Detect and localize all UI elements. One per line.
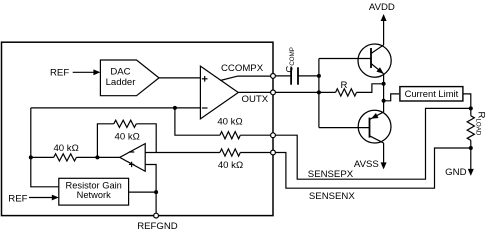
- svg-text:AVSS: AVSS: [354, 159, 379, 170]
- svg-text:SENSEPX: SENSEPX: [308, 169, 354, 180]
- svg-text:AVDD: AVDD: [369, 2, 395, 13]
- DAC Ladder block: [100, 60, 159, 96]
- terminal SENSEPX: [271, 133, 276, 138]
- wire OUTX line: [275, 91, 335, 93]
- svg-text:40 kΩ: 40 kΩ: [217, 117, 242, 128]
- svg-text:40 kΩ: 40 kΩ: [218, 160, 243, 171]
- Current Limit block: [400, 87, 463, 101]
- node current limit junction: [382, 99, 386, 103]
- wire U2 inverting input to terminal: [145, 152, 220, 154]
- power AVDD: [369, 2, 395, 45]
- terminal OUTX: [271, 90, 276, 95]
- svg-text:R: R: [341, 80, 348, 91]
- wire base of Q1: [319, 58, 371, 60]
- resistor 40 kOhm (to SENSENX terminal): [218, 149, 271, 171]
- wire DAC ladder to op-amp U1 noninverting input: [159, 77, 200, 79]
- wire Resistor Gain Network to REFGND net: [129, 191, 157, 193]
- svg-text:CCOMPX: CCOMPX: [221, 63, 264, 74]
- wire base of Q2: [319, 127, 370, 129]
- terminal REFGND: [154, 213, 159, 218]
- svg-text:OUTX: OUTX: [242, 94, 269, 105]
- node feedback branch junction: [173, 106, 177, 110]
- wire Current Limit to RLOAD top: [463, 94, 471, 109]
- transistor Q2 (PNP bottom): [358, 110, 391, 143]
- svg-text:GND: GND: [445, 167, 466, 178]
- wire U1 output to OUTX terminal: [238, 91, 270, 93]
- op-amp U2 (pointing left): [120, 144, 145, 172]
- wire SENSEPX net: [275, 108, 470, 179]
- wire base bus vertical: [318, 59, 320, 128]
- wire U1 inverting input feedback line: [31, 107, 201, 109]
- wire Q1 emitter to Q2 emitter: [383, 74, 385, 112]
- resistor R (series): [336, 80, 357, 96]
- node op-amp U2 output junction: [95, 155, 99, 159]
- node OUTX junction: [317, 90, 321, 94]
- svg-text:REF: REF: [8, 193, 27, 204]
- node left resistor junction: [29, 155, 33, 159]
- node CCOMP junction: [317, 74, 321, 78]
- svg-text:40 kΩ: 40 kΩ: [115, 131, 140, 142]
- transistor Q1 (NPN top): [358, 44, 391, 77]
- svg-text:CCOMP: CCOMP: [284, 47, 296, 73]
- wire U2 noninverting input to REFGND: [145, 165, 156, 214]
- svg-text:Ladder: Ladder: [106, 77, 137, 88]
- resistor 40 kOhm (left): [31, 143, 98, 161]
- svg-text:SENSENX: SENSENX: [309, 191, 355, 202]
- resistor 40 kOhm (feedback of U2): [97, 120, 156, 157]
- op-amp U1: [200, 66, 238, 119]
- svg-text:Current Limit: Current Limit: [405, 88, 459, 99]
- wire R to emitter node (jog): [357, 84, 384, 93]
- wire REF to DAC ladder (arrow): [73, 69, 101, 75]
- wire feedback branch down to 40k: [175, 108, 220, 135]
- wire to Current Limit (jog): [384, 94, 400, 101]
- wire U2 output: [97, 156, 119, 158]
- svg-text:DAC: DAC: [110, 67, 130, 78]
- node RLOAD bottom junction: [469, 146, 473, 150]
- node emitter/R junction: [382, 82, 386, 86]
- wire left vertical to Resistor Gain Network: [31, 108, 59, 187]
- svg-text:40 kΩ: 40 kΩ: [53, 143, 78, 154]
- ground GND: [445, 148, 474, 178]
- wire REF to Resistor Gain Network (arrow): [29, 195, 59, 201]
- resistor RLOAD: [467, 108, 486, 148]
- svg-text:REFGND: REFGND: [137, 221, 178, 232]
- svg-text:RLOAD: RLOAD: [475, 112, 487, 136]
- node REFGND tee junction: [154, 190, 158, 194]
- power AVSS: [354, 143, 387, 170]
- node RLOAD top junction: [469, 106, 473, 110]
- resistor 40 kOhm (to SENSEPX terminal): [217, 117, 270, 139]
- capacitor CCOMP: [275, 47, 319, 85]
- wire SENSENX net: [275, 148, 470, 188]
- terminal CCOMPX: [271, 74, 276, 79]
- svg-text:REF: REF: [50, 67, 69, 78]
- outer box (device boundary): [2, 42, 274, 215]
- wire U1 to CCOMPX terminal: [220, 76, 270, 80]
- svg-text:Network: Network: [77, 190, 111, 200]
- Resistor Gain Network block: [59, 178, 129, 205]
- terminal SENSENX: [271, 150, 276, 155]
